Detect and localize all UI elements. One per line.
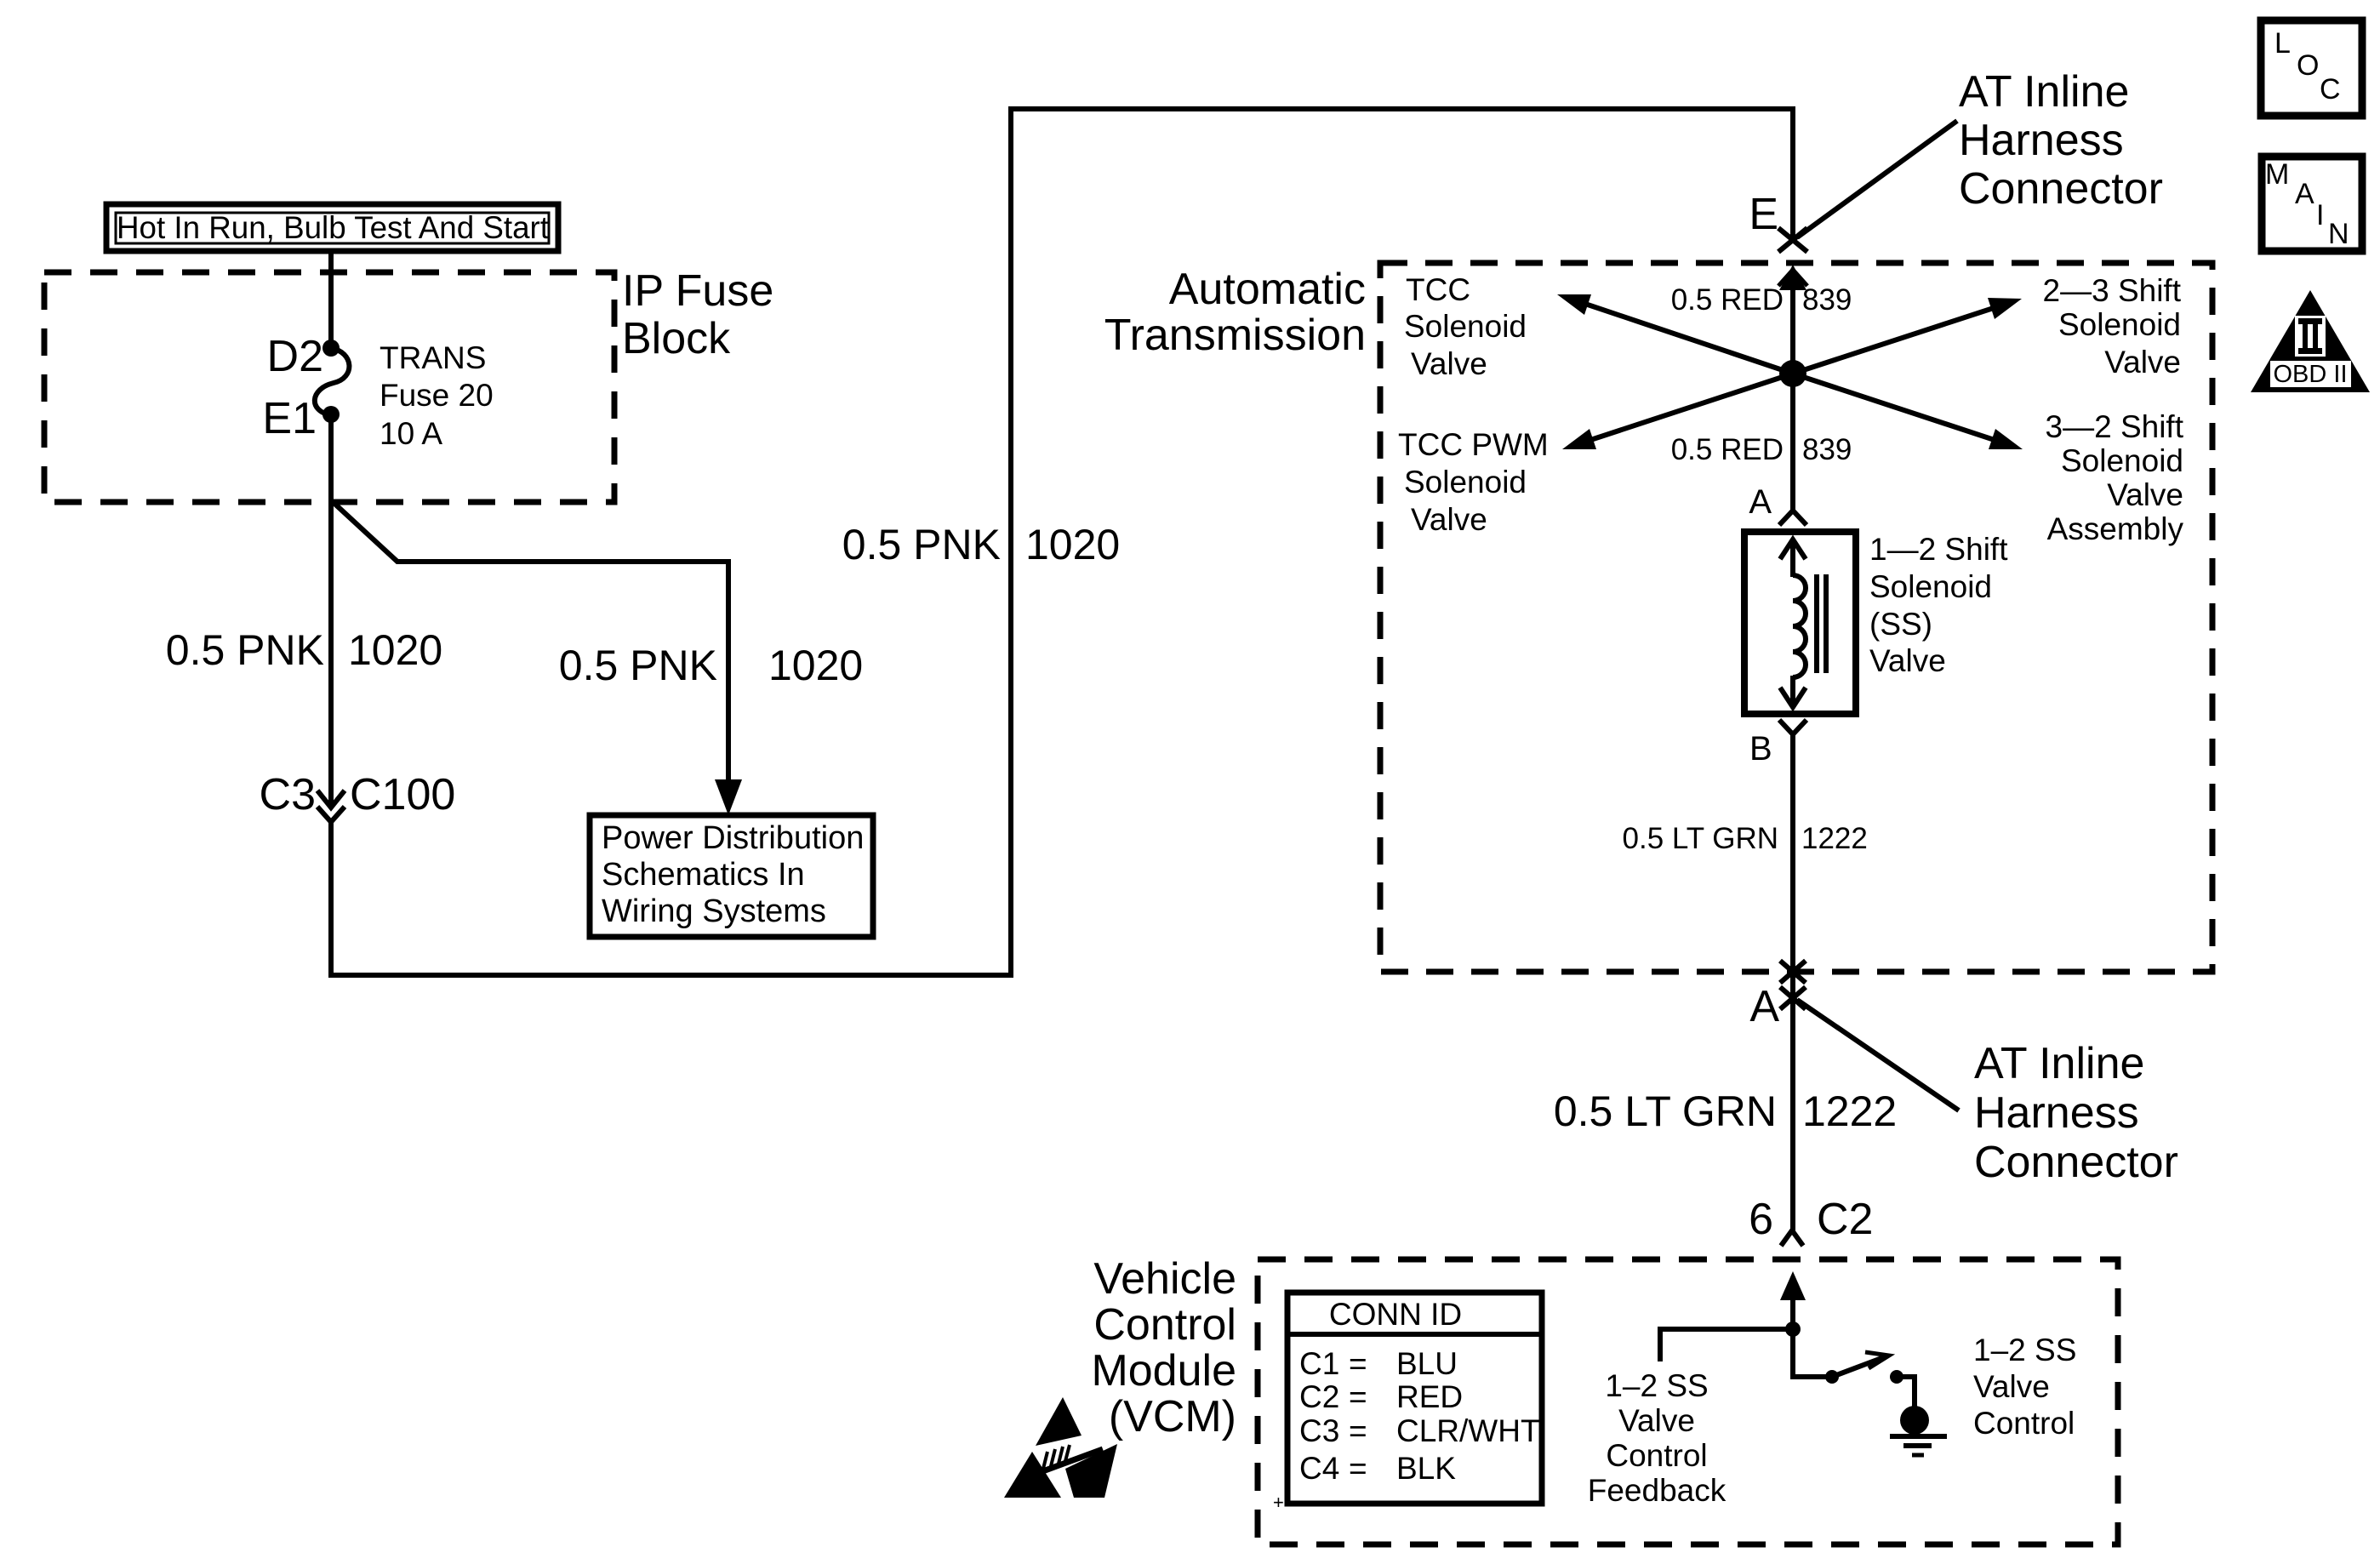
legend: OBD II triangle symbol [2251, 290, 2370, 392]
svg-text:3—2 Shift: 3—2 Shift [2046, 409, 2184, 444]
svg-text:C2: C2 [1299, 1379, 1339, 1414]
svg-text:(SS): (SS) [1869, 607, 1932, 642]
legend: LOC box [2261, 20, 2362, 116]
ESD static sensitive symbol [1004, 1397, 1117, 1498]
svg-text:1020: 1020 [768, 642, 863, 689]
svg-text:D2: D2 [267, 332, 323, 381]
svg-text:A: A [2295, 178, 2314, 210]
svg-text:0.5 PNK: 0.5 PNK [842, 521, 1001, 568]
svg-text:0.5 LT GRN: 0.5 LT GRN [1623, 822, 1779, 855]
svg-text:OBD II: OBD II [2273, 361, 2347, 388]
svg-text:(VCM): (VCM) [1109, 1392, 1236, 1441]
svg-text:Solenoid: Solenoid [1404, 309, 1527, 344]
svg-text:IP Fuse: IP Fuse [622, 266, 773, 316]
svg-text:I: I [2316, 199, 2324, 231]
svg-text:Valve: Valve [2104, 345, 2181, 380]
svg-text:Fuse 20: Fuse 20 [380, 378, 494, 413]
solenoid internal arrow down [1780, 676, 1806, 707]
wire: solenoid B down through transmission boundary [1790, 734, 1795, 1231]
svg-text:=: = [1349, 1346, 1367, 1381]
connector mark at transmission boundary [1780, 961, 1806, 983]
svg-text:TRANS: TRANS [380, 340, 486, 375]
connector E: AT inline harness connector mark [1778, 228, 1807, 252]
node: Hot In Run, Bulb Test And Start feed box [106, 204, 558, 251]
connector C3|C100 pass-through symbol [317, 791, 345, 822]
svg-text:0.5 LT GRN: 0.5 LT GRN [1554, 1087, 1777, 1135]
svg-text:Control: Control [1973, 1406, 2075, 1441]
IP Fuse Block dashed outline [44, 272, 614, 502]
svg-text:C2: C2 [1817, 1195, 1873, 1244]
node: splice junction dot [1779, 360, 1806, 387]
svg-text:Automatic: Automatic [1169, 265, 1366, 314]
svg-text:839: 839 [1802, 433, 1852, 466]
svg-text:N: N [2328, 218, 2349, 250]
svg-text:A: A [1749, 982, 1779, 1031]
svg-text:1020: 1020 [348, 626, 442, 674]
svg-text:Module: Module [1091, 1346, 1236, 1396]
svg-text:Vehicle: Vehicle [1093, 1254, 1236, 1304]
connector A: AT inline harness connector mark [1780, 987, 1806, 1009]
svg-text:Schematics In: Schematics In [602, 857, 805, 893]
svg-text:Wiring Systems: Wiring Systems [602, 893, 826, 929]
wire arrow into power distribution reference [715, 779, 742, 815]
wire: contact to ground [1897, 1377, 1915, 1408]
svg-text:0.5 RED: 0.5 RED [1671, 433, 1784, 466]
svg-text:=: = [1349, 1451, 1367, 1486]
Vehicle Control Module dashed outline [1258, 1259, 2118, 1544]
Automatic Transmission dashed outline [1380, 263, 2212, 972]
legend: MAIN box [2262, 157, 2362, 251]
wire: feed into splice [1790, 287, 1795, 380]
svg-text:Feedback: Feedback [1588, 1473, 1726, 1508]
svg-text:E1: E1 [262, 394, 317, 443]
svg-text:BLU: BLU [1396, 1346, 1458, 1381]
switch SW: 1-2 SS valve control driver [1825, 1370, 1839, 1384]
solenoid coil winding [1793, 575, 1806, 677]
svg-text:Valve: Valve [1973, 1369, 2050, 1404]
wire: hot feed into fuse D2 [328, 251, 334, 344]
wire: below C100 down to bottom run [328, 822, 334, 978]
svg-text:O: O [2297, 49, 2319, 82]
wire: bottom horizontal run [328, 973, 1013, 978]
svg-text:1020: 1020 [1025, 521, 1120, 568]
svg-text:C3: C3 [260, 770, 316, 819]
svg-text:6: 6 [1749, 1195, 1773, 1244]
svg-text:Valve: Valve [1869, 643, 1946, 678]
svg-text:1–2 SS: 1–2 SS [1973, 1333, 2076, 1367]
svg-text:Power Distribution: Power Distribution [602, 820, 864, 856]
callout line to AT Inline Harness Connector (bottom) [1797, 1000, 1959, 1110]
svg-text:Valve: Valve [2107, 477, 2183, 512]
svg-text:Harness: Harness [1974, 1088, 2139, 1138]
wire: VCM output to feedback junction [1790, 1289, 1795, 1332]
wire arrow up into 6/C2 from VCM [1780, 1271, 1806, 1300]
svg-text:AT Inline: AT Inline [1959, 67, 2129, 117]
svg-text:Transmission: Transmission [1104, 311, 1366, 360]
svg-text:C: C [2320, 73, 2341, 106]
wire arrow to 3-2 Shift Solenoid Valve Assembly [1793, 374, 2007, 444]
switch contact dot [1890, 1370, 1903, 1384]
svg-text:0.5 PNK: 0.5 PNK [559, 642, 717, 689]
solenoid internal arrow up [1780, 539, 1806, 577]
solenoid core bars [1814, 574, 1819, 673]
wire arrow to TCC Solenoid Valve [1572, 300, 1793, 374]
svg-text:CLR/WHT: CLR/WHT [1396, 1413, 1540, 1448]
svg-text:A: A [1749, 483, 1772, 521]
svg-text:CONN ID: CONN ID [1329, 1297, 1462, 1332]
svg-text:1222: 1222 [1802, 1087, 1897, 1135]
svg-text:M: M [2265, 158, 2289, 191]
ground G: chassis ground symbol [1900, 1406, 1929, 1435]
svg-text:Connector: Connector [1974, 1138, 2178, 1187]
svg-text:Control: Control [1606, 1438, 1707, 1473]
svg-text:TCC PWM: TCC PWM [1398, 427, 1549, 462]
svg-text:0.5 PNK: 0.5 PNK [166, 626, 324, 674]
svg-text:Hot In Run, Bulb Test And Star: Hot In Run, Bulb Test And Start [117, 210, 550, 245]
wire: branch from fuse block to power distribution [331, 500, 728, 786]
svg-text:Assembly: Assembly [2047, 511, 2184, 546]
svg-text:C4: C4 [1299, 1451, 1339, 1486]
wire: splice down to solenoid pin A [1790, 374, 1795, 512]
svg-text:BLK: BLK [1396, 1451, 1456, 1486]
callout line to AT Inline Harness Connector (top) [1797, 121, 1957, 237]
svg-text:Harness: Harness [1959, 116, 2124, 165]
svg-text:Solenoid: Solenoid [1869, 569, 1992, 604]
svg-text:Solenoid: Solenoid [1404, 465, 1527, 499]
svg-text:E: E [1749, 190, 1778, 239]
solenoid L1: 1-2 Shift Solenoid (SS) Valve box [1744, 532, 1856, 714]
svg-text:Valve: Valve [1618, 1403, 1695, 1438]
svg-text:C3: C3 [1299, 1413, 1339, 1448]
wire arrow up at transmission boundary [1779, 265, 1806, 290]
svg-text:1222: 1222 [1801, 822, 1868, 855]
svg-text:TCC: TCC [1406, 272, 1470, 307]
wire: fuse output down to C100 connector [328, 414, 334, 808]
svg-text:10 A: 10 A [380, 416, 442, 451]
wire arrow to TCC PWM Solenoid Valve [1578, 374, 1793, 444]
svg-text:Block: Block [622, 314, 731, 363]
connector mark at solenoid pin A [1779, 511, 1806, 525]
pin D2 terminal dot [322, 340, 340, 357]
svg-text:1—2 Shift: 1—2 Shift [1869, 532, 2008, 567]
node: CONN ID table [1273, 1293, 1542, 1513]
node: feedback junction dot [1785, 1321, 1801, 1337]
connector mark 6 / C2 [1781, 1230, 1803, 1246]
svg-text:RED: RED [1396, 1379, 1463, 1414]
wire: 1-2 SS valve control feedback stub [1660, 1329, 1793, 1361]
svg-text:L: L [2274, 27, 2291, 60]
svg-text:0.5 RED: 0.5 RED [1671, 283, 1784, 317]
svg-text:Control: Control [1093, 1300, 1236, 1350]
pin E1 terminal dot [322, 406, 340, 423]
svg-text:1–2 SS: 1–2 SS [1605, 1368, 1708, 1403]
svg-text:839: 839 [1802, 283, 1852, 317]
wire: top horizontal run [1008, 106, 1795, 111]
fuse F: TRANS Fuse 20 10A (S-curve element) [315, 348, 350, 415]
node: Power Distribution Schematics reference box [590, 815, 873, 937]
svg-text:Solenoid: Solenoid [2058, 307, 2181, 342]
wire: junction down to switch [1793, 1329, 1829, 1377]
svg-text:B: B [1749, 730, 1772, 768]
svg-text:Connector: Connector [1959, 164, 2163, 214]
svg-text:=: = [1349, 1413, 1367, 1448]
wire: drop to AT inline harness connector E [1790, 109, 1795, 238]
svg-text:=: = [1349, 1379, 1367, 1414]
switch arm with arrow [1832, 1357, 1884, 1377]
wire: long vertical riser [1008, 106, 1013, 978]
svg-text:C100: C100 [350, 770, 455, 819]
svg-text:C1: C1 [1299, 1346, 1339, 1381]
svg-text:Valve: Valve [1411, 502, 1487, 537]
svg-text:2—3 Shift: 2—3 Shift [2043, 273, 2182, 308]
connector mark at solenoid pin B [1779, 720, 1806, 734]
svg-text:+: + [1273, 1492, 1284, 1513]
svg-text:Solenoid: Solenoid [2061, 443, 2183, 478]
svg-text:Valve: Valve [1411, 346, 1487, 381]
wire arrow to 2-3 Shift Solenoid Valve [1793, 304, 2006, 374]
svg-text:AT Inline: AT Inline [1974, 1039, 2144, 1088]
